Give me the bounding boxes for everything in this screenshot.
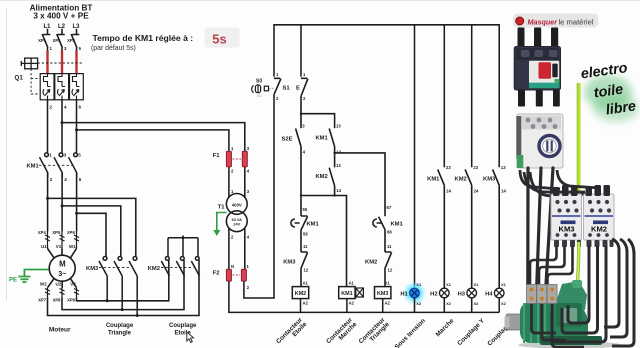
svg-text:XP4: XP4 — [38, 230, 47, 235]
svg-text:XP8: XP8 — [53, 298, 62, 303]
svg-text:F1: F1 — [213, 153, 221, 159]
svg-text:W2: W2 — [40, 282, 47, 287]
svg-text:T1: T1 — [218, 205, 226, 211]
svg-text:PE: PE — [9, 278, 17, 284]
svg-text:XP7: XP7 — [38, 298, 47, 303]
svg-text:KM1: KM1 — [315, 136, 328, 142]
svg-text:le matériel: le matériel — [559, 17, 594, 26]
svg-text:X2: X2 — [416, 301, 422, 306]
svg-text:KM1: KM1 — [341, 291, 352, 297]
svg-text:KM1: KM1 — [27, 164, 40, 170]
svg-text:S2E: S2E — [282, 137, 293, 143]
svg-text:KM2: KM2 — [295, 291, 306, 297]
svg-text:M: M — [59, 260, 66, 269]
svg-text:X1: X1 — [416, 282, 422, 287]
svg-text:Moteur: Moteur — [49, 327, 71, 334]
svg-text:XP2: XP2 — [53, 38, 62, 43]
svg-text:A2: A2 — [349, 301, 355, 306]
svg-text:A2: A2 — [303, 301, 309, 306]
svg-text:3~: 3~ — [58, 269, 66, 278]
svg-text:U1: U1 — [41, 244, 47, 249]
svg-text:L3: L3 — [72, 24, 80, 30]
svg-text:F2: F2 — [213, 271, 220, 277]
svg-text:L2: L2 — [58, 24, 66, 30]
svg-text:24V: 24V — [233, 223, 240, 227]
svg-text:A1: A1 — [349, 281, 355, 286]
svg-text:KM1: KM1 — [307, 222, 320, 228]
svg-text:11: 11 — [387, 244, 392, 249]
svg-text:23: 23 — [473, 165, 478, 170]
svg-text:Masquer: Masquer — [528, 17, 559, 26]
svg-text:67: 67 — [387, 205, 392, 210]
svg-text:V2: V2 — [70, 282, 76, 287]
svg-text:XP5: XP5 — [52, 230, 61, 235]
svg-text:KM3: KM3 — [283, 260, 296, 266]
svg-text:V1: V1 — [56, 244, 62, 249]
svg-text:H3: H3 — [458, 292, 466, 298]
svg-text:14: 14 — [336, 150, 341, 155]
svg-text:XP9: XP9 — [67, 298, 76, 303]
svg-text:KM3: KM3 — [558, 225, 574, 234]
svg-text:H2: H2 — [430, 292, 437, 298]
svg-text:12: 12 — [304, 268, 309, 273]
svg-text:L1: L1 — [43, 24, 51, 30]
svg-text:A1: A1 — [385, 281, 391, 286]
svg-text:X2: X2 — [474, 301, 480, 306]
svg-text:X1: X1 — [474, 282, 480, 287]
svg-text:KM2: KM2 — [365, 260, 377, 266]
svg-text:23: 23 — [446, 165, 451, 170]
svg-text:KM2: KM2 — [148, 266, 160, 272]
svg-text:KM2: KM2 — [315, 174, 327, 180]
svg-text:A1: A1 — [303, 281, 309, 286]
svg-text:56: 56 — [303, 232, 308, 237]
svg-text:(par défaut 5s): (par défaut 5s) — [91, 45, 136, 52]
svg-text:dU: dU — [257, 94, 262, 98]
svg-text:5s: 5s — [212, 32, 226, 47]
svg-text:Couplage: Couplage — [106, 323, 134, 329]
svg-text:XP1: XP1 — [38, 38, 47, 43]
svg-text:X1: X1 — [446, 282, 452, 287]
svg-text:KM3: KM3 — [483, 176, 496, 182]
svg-text:W1: W1 — [69, 244, 76, 249]
svg-text:14: 14 — [336, 188, 341, 193]
svg-text:KM2: KM2 — [455, 176, 467, 182]
svg-text:XP3: XP3 — [67, 38, 76, 43]
svg-text:68: 68 — [387, 230, 392, 235]
svg-text:13: 13 — [336, 123, 341, 128]
svg-text:Tempo de KM1 réglée à :: Tempo de KM1 réglée à : — [93, 33, 194, 43]
svg-text:E: E — [296, 86, 300, 92]
svg-text:24: 24 — [446, 188, 451, 193]
svg-text:11: 11 — [303, 244, 308, 249]
svg-text:KM3: KM3 — [86, 266, 99, 272]
svg-text:A2: A2 — [385, 301, 391, 306]
svg-text:3 x 400 V + PE: 3 x 400 V + PE — [33, 12, 89, 21]
svg-text:KM1: KM1 — [427, 176, 440, 182]
svg-text:24: 24 — [474, 188, 479, 193]
svg-text:X1: X1 — [501, 282, 507, 287]
svg-text:63 VA: 63 VA — [232, 218, 243, 222]
svg-text:Couplage: Couplage — [169, 323, 197, 329]
svg-text:55: 55 — [303, 207, 308, 212]
svg-text:S1: S1 — [283, 86, 291, 92]
svg-text:U2: U2 — [56, 282, 62, 287]
svg-text:14: 14 — [501, 188, 506, 193]
svg-text:X2: X2 — [446, 301, 452, 306]
svg-text:X2: X2 — [501, 301, 507, 306]
svg-text:KM2: KM2 — [591, 225, 607, 234]
svg-text:N: N — [231, 264, 234, 269]
svg-text:12: 12 — [388, 268, 393, 273]
svg-text:H4: H4 — [485, 292, 493, 298]
svg-text:S0: S0 — [256, 79, 262, 85]
svg-text:XP6: XP6 — [67, 230, 76, 235]
svg-text:Triangle: Triangle — [108, 331, 132, 337]
svg-text:13: 13 — [501, 165, 506, 170]
svg-text:KM3: KM3 — [377, 291, 388, 297]
svg-text:KM1: KM1 — [391, 222, 404, 228]
svg-text:Q1: Q1 — [15, 75, 24, 82]
svg-text:13: 13 — [336, 163, 341, 168]
svg-text:H1: H1 — [400, 292, 408, 298]
svg-text:400V: 400V — [232, 202, 242, 207]
